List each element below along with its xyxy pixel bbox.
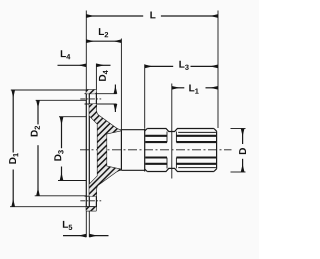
extension line flange left face up <box>85 11 87 90</box>
extension line flange right face up <box>95 64 97 90</box>
label L5 <box>63 221 72 230</box>
label L <box>150 12 155 19</box>
flange plate back face <box>88 90 90 211</box>
groove wall bottom right <box>175 158 177 169</box>
extension D2 bottom <box>35 195 87 197</box>
dimension D1 <box>12 90 14 153</box>
label L3 <box>179 61 188 70</box>
L5 extension lines <box>85 211 87 237</box>
spline crest line right top <box>178 131 216 133</box>
dimension L5 right <box>89 235 108 237</box>
dimension L2 <box>86 40 121 42</box>
extension line shaft end <box>217 11 219 129</box>
shaft end face <box>216 131 218 169</box>
flange top edge <box>86 89 96 91</box>
groove center line / L1 extension <box>171 84 173 179</box>
spline start edge <box>144 129 146 172</box>
spline OD bottom end chamfer <box>214 169 217 172</box>
spline OD bottom line with groove dip <box>147 168 214 171</box>
label L4 <box>61 50 71 59</box>
hub bore outline <box>107 131 122 170</box>
hub shell outer face lower <box>96 170 121 211</box>
extension line spline start up <box>144 64 146 128</box>
label D3 <box>54 150 63 160</box>
extension D1 bottom <box>10 206 86 208</box>
hub shell outer face upper <box>96 90 121 130</box>
bolt hole bottom centerline <box>80 200 101 202</box>
extension D1 top <box>11 89 87 91</box>
label L2 <box>99 28 108 37</box>
dimension L1 <box>172 87 185 89</box>
spline tooth line t1 <box>145 135 216 137</box>
groove wall top left <box>166 132 168 143</box>
plain shaft bottom edge <box>121 169 144 171</box>
dimension L5 left <box>63 235 86 237</box>
dimension L4 left part <box>58 64 87 66</box>
extension D3 top <box>59 116 86 118</box>
bolt hole top centerline <box>80 98 101 100</box>
label D1 <box>9 153 18 164</box>
spline tooth line t2 <box>145 141 216 143</box>
bolt hole top <box>85 93 117 95</box>
dimension L3 <box>145 65 174 67</box>
spline crest line right bottom <box>178 167 216 169</box>
extension line hub face up <box>120 39 122 130</box>
label D4 <box>99 70 108 81</box>
flange hatch upper <box>86 90 96 94</box>
dimension D4 upper <box>114 85 116 94</box>
dimension D3 <box>61 117 63 148</box>
spline OD top start chamfer <box>145 129 148 132</box>
extension D top <box>231 128 246 130</box>
dimension L4 right part <box>96 64 110 66</box>
dimension L <box>86 15 143 17</box>
centerline main axis <box>80 149 232 151</box>
label L1 <box>189 85 198 94</box>
extension D bottom <box>231 171 246 173</box>
hub right face <box>120 130 122 170</box>
dimension D4 lower <box>114 104 116 112</box>
plain shaft top edge <box>121 129 144 131</box>
spline OD top end chamfer <box>214 129 217 132</box>
dimension D2 <box>37 100 39 124</box>
extension D3 bottom <box>58 180 86 182</box>
flange plate front face <box>85 90 87 211</box>
spline OD top line with groove dip <box>147 129 214 132</box>
label D2 <box>31 126 40 136</box>
dimension D right <box>242 129 244 145</box>
hub shell inner wall <box>89 116 97 185</box>
groove wall bottom left <box>166 158 168 169</box>
groove wall top right <box>175 132 177 143</box>
spline tooth line t3 <box>145 156 216 158</box>
flange bottom edge <box>86 210 96 212</box>
bolt hole bottom <box>85 195 97 197</box>
spline OD bottom start chamfer <box>145 169 148 172</box>
extension D2 top <box>36 99 87 101</box>
label D <box>239 148 246 154</box>
hole bottom lower edge <box>86 206 96 208</box>
spline tooth line t4 <box>145 163 216 165</box>
